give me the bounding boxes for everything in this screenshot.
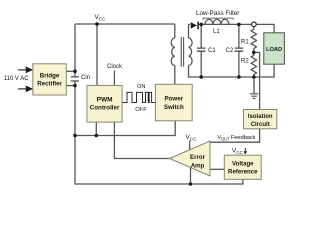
svg-text:Voltage: Voltage — [232, 161, 254, 168]
inductor L1 — [205, 19, 229, 24]
capacitor C2 — [235, 48, 244, 51]
svg-text:Power: Power — [165, 95, 184, 102]
arrow AC input bottom — [18, 86, 32, 91]
svg-text:PWM: PWM — [97, 97, 113, 104]
wire ground stub — [253, 77, 255, 93]
svg-text:Cin: Cin — [81, 75, 90, 81]
box power switch — [155, 84, 192, 121]
svg-text:Error: Error — [190, 154, 206, 161]
wire left rail upper — [74, 24, 76, 76]
wire PWM bottom stub — [95, 122, 97, 135]
junction PWM stub on line A — [95, 134, 99, 138]
svg-text:Switch: Switch — [164, 104, 184, 111]
junction rectifier plus output on rail — [73, 70, 77, 74]
box isolation circuit — [244, 110, 277, 129]
transformer T1 core — [181, 37, 183, 67]
wire bridge rectifier output top — [66, 70, 75, 72]
svg-text:Low-Pass Filter: Low-Pass Filter — [196, 10, 239, 17]
box LOAD — [264, 33, 285, 64]
wire feedback divider tap to isolation circuit — [254, 52, 260, 109]
svg-text:VCC: VCC — [232, 148, 244, 156]
svg-text:110 V AC: 110 V AC — [4, 76, 30, 82]
wire secondary bottom line — [189, 64, 275, 77]
svg-text:VCC: VCC — [186, 134, 198, 142]
svg-text:Clock: Clock — [107, 64, 123, 70]
wire isolation circuit to feedback line — [210, 129, 260, 142]
transformer T1 secondary winding — [189, 38, 193, 66]
box PWM controller — [87, 85, 122, 122]
svg-text:OFF: OFF — [135, 107, 147, 113]
arrow VCC into voltage reference — [244, 148, 247, 154]
svg-text:C2: C2 — [226, 48, 234, 54]
svg-text:R2: R2 — [241, 59, 249, 65]
svg-text:Reference: Reference — [228, 169, 258, 176]
capacitor C1 — [197, 48, 206, 51]
svg-text:L1: L1 — [213, 29, 220, 35]
wire error amp VCC stub — [189, 141, 191, 150]
svg-text:VOUT Feedback: VOUT Feedback — [217, 135, 255, 142]
junction node A divider midpoint R1 R2 — [252, 51, 256, 55]
junction C2 top node — [237, 23, 241, 27]
svg-text:Bridge: Bridge — [40, 73, 60, 80]
wire clock stub — [113, 71, 115, 86]
node VOUT terminal circle — [252, 22, 257, 27]
wire line A ground to power switch — [75, 121, 175, 136]
wire transformer secondary top — [189, 24, 191, 38]
junction error amp ground on bottom rail — [189, 182, 193, 186]
low-pass filter bracket — [203, 18, 233, 19]
wire transformer primary top — [174, 24, 176, 38]
junction rectifier minus output on rail — [73, 84, 77, 88]
box bridge rectifier U1 — [33, 64, 67, 95]
svg-text:R1: R1 — [241, 40, 249, 46]
svg-text:Isolation: Isolation — [248, 114, 273, 120]
junction C1 top node — [199, 23, 203, 27]
svg-text:Controller: Controller — [90, 104, 120, 111]
wire error amp ground stub — [190, 168, 192, 185]
wire C2 branch — [238, 24, 240, 77]
ground — [250, 94, 258, 99]
wire transformer primary bottom to power switch — [174, 66, 176, 85]
resistor R2 — [251, 52, 256, 77]
svg-text:C1: C1 — [208, 48, 216, 54]
svg-text:ON: ON — [137, 84, 145, 90]
junction C1 bottom node — [199, 75, 203, 79]
op-amp error amplifier — [170, 141, 211, 176]
junction R2 bottom ground node — [252, 75, 256, 79]
diode D1 — [191, 22, 198, 30]
capacitor Cin — [71, 77, 79, 81]
wire voltage reference to error amp — [210, 168, 224, 170]
PWM waveform ON/OFF — [122, 92, 155, 102]
junction C2 bottom node — [237, 75, 241, 79]
svg-text:Amp: Amp — [191, 163, 205, 170]
wire secondary top line diode to load — [199, 24, 274, 32]
wire left rail lower — [75, 81, 243, 184]
junction VCC stub on top rail — [95, 22, 99, 26]
arrow AC input top — [18, 67, 32, 72]
box voltage reference — [224, 155, 261, 179]
wire bridge rectifier output bottom — [66, 85, 75, 87]
wire VCC top rail — [75, 23, 175, 25]
svg-text:LOAD: LOAD — [266, 47, 282, 53]
svg-text:Rectifier: Rectifier — [37, 80, 62, 87]
svg-text:Circuit: Circuit — [251, 122, 270, 128]
svg-text:VCC: VCC — [95, 14, 107, 22]
wire C1 branch — [200, 24, 202, 77]
wire VCC stub to PWM controller — [96, 24, 98, 85]
resistor R1 — [251, 27, 256, 53]
transformer T1 primary winding — [171, 38, 175, 66]
junction return rail to line A — [73, 134, 77, 138]
wire line B error amp output to PWM — [114, 122, 169, 158]
